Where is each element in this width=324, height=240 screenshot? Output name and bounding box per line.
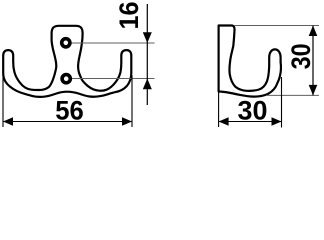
svg-text:56: 56 [55,96,84,126]
arrow left 30 [219,117,229,126]
extension line from bottom hole [71,78,155,80]
screw hole top [62,39,70,47]
extension line 30 left [218,92,220,127]
extension line 30 right [281,77,283,128]
svg-text:30: 30 [286,43,316,69]
svg-text:16: 16 [114,2,144,30]
dimension line 56 [3,121,132,123]
svg-text:30: 30 [238,96,268,126]
arrow down (height 30) [309,85,318,96]
arrow up (height 30) [309,26,318,37]
arrow right 30 [272,117,282,126]
dimension line 30 vertical [312,26,314,96]
extension line from top hole [71,42,155,44]
front view: double hook outline [3,26,131,97]
arrow up to bottom hole line [143,79,152,90]
arrow down to top hole line [143,32,152,43]
extension line 56 right [131,75,133,127]
arrow right 56 [122,117,132,126]
top extension line (height 30) [235,25,320,27]
dimension line 16 vertical [146,4,148,105]
dimension line 30 bottom [219,121,282,123]
side view: hook profile [219,26,281,97]
screw hole bottom [62,75,70,83]
extension line 56 left [2,75,4,127]
bottom extension line (height 30) [266,94,319,96]
arrow left 56 [3,117,13,126]
